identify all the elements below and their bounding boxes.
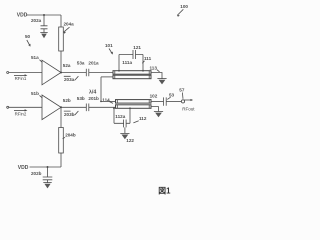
port RFin1 <box>7 72 9 74</box>
coupled line 111 coupled <box>113 75 151 79</box>
inductor choke L-a <box>59 27 64 51</box>
amplifier 51b <box>42 95 61 120</box>
capacitor 202b <box>43 177 53 183</box>
wire coupler2 output <box>151 100 164 102</box>
svg-text:204a: 204a <box>64 21 75 26</box>
svg-text:53: 53 <box>169 92 175 97</box>
ground top bias <box>40 32 47 34</box>
leader arrow 204a <box>64 27 70 32</box>
coupled line 112 coupled <box>116 105 152 109</box>
leader tick 114 <box>110 102 114 104</box>
wire cap 122 to ground <box>124 127 126 133</box>
wire resonator top <box>119 54 143 56</box>
svg-text:202b: 202b <box>31 171 42 176</box>
signal arrow out <box>184 99 191 101</box>
port RFin2 <box>7 106 9 108</box>
wire input 1 <box>9 72 42 74</box>
wire cap to coupler2 <box>89 106 116 108</box>
wire amp1 output <box>61 72 86 74</box>
svg-text:101: 101 <box>105 43 113 48</box>
svg-text:RFout: RFout <box>182 106 195 111</box>
svg-text:111: 111 <box>144 56 152 61</box>
svg-text:100: 100 <box>180 4 188 9</box>
capacitor 121 <box>133 50 136 59</box>
leader tick 203b <box>64 111 79 115</box>
svg-text:53a: 53a <box>77 60 85 65</box>
wire interconnect to coupler2 <box>101 100 116 102</box>
svg-text:111a: 111a <box>122 60 132 65</box>
node resonator leg left <box>118 70 120 72</box>
svg-text:RFin1: RFin1 <box>15 76 27 81</box>
wire VDD to choke <box>60 15 62 27</box>
svg-text:112: 112 <box>139 116 147 121</box>
capacitor DC block amp2 <box>86 104 89 112</box>
node interconnect corner <box>100 101 102 103</box>
leader tick 51b <box>40 95 43 98</box>
wire choke to VDD rail <box>60 153 62 167</box>
wire coupler1 through to ground <box>151 73 162 79</box>
wire resonator2 bottom <box>114 122 130 124</box>
svg-text:52b: 52b <box>63 98 71 103</box>
wire resonator2 legs <box>114 108 130 123</box>
svg-text:51a: 51a <box>31 55 39 60</box>
leader tick 203a <box>64 76 79 80</box>
svg-text:203a: 203a <box>64 77 75 82</box>
capacitor DC block amp1 <box>86 69 89 77</box>
svg-text:114: 114 <box>102 98 110 103</box>
quarter-wave interconnect 114 <box>100 77 102 102</box>
wire VDD bottom rail <box>30 166 62 168</box>
leader tick 204b <box>63 137 65 139</box>
leader tick 57 <box>181 93 184 99</box>
wire bias cap stub bottom <box>47 167 49 177</box>
leader tick 53 <box>167 97 170 99</box>
coupled line 111 main <box>113 71 151 75</box>
svg-text:113: 113 <box>150 65 158 70</box>
svg-text:204b: 204b <box>65 133 76 138</box>
capacitor 122 <box>124 120 127 128</box>
capacitor output 53 <box>164 97 167 105</box>
node resonator leg right <box>142 70 144 72</box>
node resonator2 leg right <box>129 107 131 109</box>
svg-text:VDD: VDD <box>18 165 29 171</box>
svg-text:112a: 112a <box>115 114 125 119</box>
leader tick 51a <box>40 60 43 63</box>
leader tick 113 <box>157 70 160 72</box>
capacitor 202a <box>41 26 48 33</box>
wire bias cap stub <box>43 15 45 26</box>
svg-text:52a: 52a <box>63 63 71 68</box>
svg-text:201a: 201a <box>88 60 99 65</box>
wire coupler2 coupled to ground <box>151 107 159 112</box>
leader arrow 100 <box>177 9 183 15</box>
node bottom bias junction <box>47 166 49 168</box>
svg-text:57: 57 <box>179 88 185 93</box>
ground bottom bias <box>43 182 51 184</box>
svg-text:RFin2: RFin2 <box>15 111 27 116</box>
stub coupled line to interconnect <box>101 76 113 78</box>
wire cap to coupler1 <box>89 72 113 74</box>
svg-text:203b: 203b <box>64 112 75 117</box>
svg-text:λ/4: λ/4 <box>89 89 96 95</box>
wire choke to amp1 output node <box>60 51 62 73</box>
wire cap to output port <box>166 100 181 102</box>
svg-text:53b: 53b <box>77 96 85 101</box>
svg-text:図1: 図1 <box>158 187 171 196</box>
svg-text:202a: 202a <box>31 18 42 23</box>
ground coupler1 termination <box>157 78 166 80</box>
svg-text:50: 50 <box>25 34 31 39</box>
node resonator2 leg left <box>113 107 115 109</box>
ground resonator2 <box>120 132 129 134</box>
leader tick 112 <box>133 121 138 123</box>
svg-text:51b: 51b <box>31 91 39 96</box>
port RFout <box>181 100 184 103</box>
leader tick 50a <box>27 40 31 46</box>
coupled line 112 main <box>116 100 152 104</box>
node top bias junction <box>43 14 45 16</box>
node amp1 output <box>60 72 62 74</box>
leader arrow 101 <box>109 49 113 55</box>
svg-text:121: 121 <box>133 45 141 50</box>
wire VDD top rail <box>26 14 61 16</box>
signal arrow in1 <box>14 74 25 76</box>
wire amp2 node to choke <box>60 107 62 127</box>
wire resonator legs <box>119 55 143 71</box>
inductor choke L-b <box>59 128 64 154</box>
svg-text:122: 122 <box>126 138 134 143</box>
amplifier 51a <box>42 60 61 85</box>
ground coupler2 termination <box>154 111 163 113</box>
svg-text:102: 102 <box>150 93 158 98</box>
node amp2 output <box>60 106 62 108</box>
signal arrow in2 <box>14 109 25 111</box>
wire amp2 output <box>61 106 86 108</box>
leader tick 111 <box>142 61 144 64</box>
svg-text:201b: 201b <box>88 96 99 101</box>
wire input 2 <box>9 106 42 108</box>
